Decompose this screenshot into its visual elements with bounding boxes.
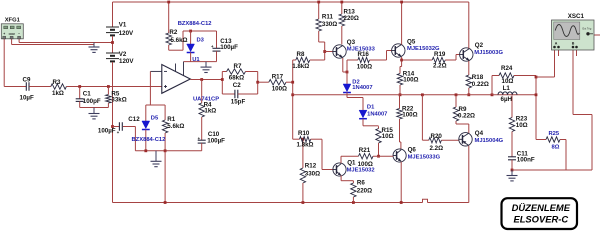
svg-text:DÜZENLEME: DÜZENLEME	[512, 202, 571, 213]
svg-text:220Ω: 220Ω	[357, 188, 372, 195]
svg-text:MJE15032: MJE15032	[347, 168, 375, 174]
svg-text:MJE15033G: MJE15033G	[408, 155, 441, 161]
svg-text:R16: R16	[358, 51, 370, 58]
svg-text:5.6kΩ: 5.6kΩ	[167, 123, 184, 130]
svg-text:BZX884-C12: BZX884-C12	[132, 137, 166, 143]
svg-text:V1: V1	[119, 22, 127, 29]
svg-text:R8: R8	[297, 51, 305, 58]
svg-text:R3: R3	[53, 79, 61, 86]
svg-text:+: +	[3, 32, 5, 36]
svg-text:5.6kΩ: 5.6kΩ	[171, 37, 188, 44]
svg-text:D1: D1	[367, 104, 375, 110]
svg-text:Q3: Q3	[347, 39, 356, 46]
svg-text:R24: R24	[501, 65, 513, 72]
svg-text:2.2Ω: 2.2Ω	[433, 63, 447, 70]
svg-text:BZX884-C12: BZX884-C12	[178, 21, 212, 27]
svg-text:1N4007: 1N4007	[367, 111, 387, 117]
svg-text:A: A	[555, 42, 558, 46]
svg-text:100µF: 100µF	[207, 138, 225, 145]
svg-text:120V: 120V	[119, 58, 134, 65]
svg-text:D3: D3	[197, 38, 205, 44]
svg-text:10Ω: 10Ω	[516, 122, 528, 129]
svg-text:U1: U1	[192, 57, 200, 63]
svg-text:R19: R19	[434, 51, 446, 58]
svg-text:1N4007: 1N4007	[352, 85, 372, 91]
svg-text:1.8kΩ: 1.8kΩ	[297, 141, 314, 148]
svg-text:C1: C1	[83, 90, 91, 97]
svg-text:R21: R21	[359, 147, 371, 154]
svg-text:330Ω: 330Ω	[305, 170, 320, 177]
svg-text:ELSOVER-C: ELSOVER-C	[513, 214, 568, 225]
svg-text:C9: C9	[23, 76, 31, 83]
svg-text:100Ω: 100Ω	[272, 85, 287, 92]
svg-text:R18: R18	[472, 74, 484, 81]
svg-text:100Ω: 100Ω	[403, 77, 418, 84]
svg-text:Q4: Q4	[475, 130, 484, 137]
svg-text:V2: V2	[119, 51, 127, 58]
svg-text:XSC1: XSC1	[568, 13, 585, 20]
svg-text:Q5: Q5	[407, 38, 416, 45]
svg-text:1kΩ: 1kΩ	[204, 108, 216, 115]
svg-text:C12: C12	[128, 116, 140, 123]
svg-text:L1: L1	[503, 85, 511, 92]
svg-text:Q6: Q6	[408, 147, 417, 154]
svg-text:1.8kΩ: 1.8kΩ	[292, 63, 309, 70]
svg-text:R11: R11	[322, 14, 334, 21]
svg-text:MJ15003G: MJ15003G	[474, 50, 503, 56]
svg-text:R12: R12	[305, 163, 317, 170]
svg-text:Q2: Q2	[475, 42, 484, 49]
svg-text:R7: R7	[234, 63, 242, 70]
svg-text:−: −	[18, 32, 20, 36]
svg-text:220Ω: 220Ω	[344, 15, 359, 22]
svg-text:R10: R10	[298, 130, 310, 137]
svg-text:Ext Trig: Ext Trig	[583, 27, 592, 31]
svg-text:8Ω: 8Ω	[552, 145, 560, 151]
svg-text:R20: R20	[431, 133, 443, 140]
svg-text:Q1: Q1	[347, 160, 356, 167]
svg-text:100µF: 100µF	[98, 127, 116, 134]
svg-text:D5: D5	[151, 116, 159, 122]
svg-text:33kΩ: 33kΩ	[111, 96, 126, 103]
svg-text:330Ω: 330Ω	[322, 21, 337, 28]
svg-text:XFG1: XFG1	[5, 17, 21, 23]
svg-text:1kΩ: 1kΩ	[52, 90, 64, 97]
svg-text:R17: R17	[272, 73, 284, 80]
svg-text:B: B	[572, 42, 575, 46]
svg-text:R6: R6	[357, 180, 365, 187]
svg-text:100pF: 100pF	[83, 98, 101, 105]
svg-text:C2: C2	[233, 82, 241, 89]
svg-text:COM: COM	[9, 32, 15, 36]
svg-text:10µF: 10µF	[20, 95, 34, 102]
svg-text:MJ15004G: MJ15004G	[475, 138, 504, 144]
svg-text:68kΩ: 68kΩ	[229, 74, 244, 81]
svg-text:10Ω: 10Ω	[382, 133, 394, 140]
svg-text:R2: R2	[169, 29, 177, 36]
svg-text:2.2Ω: 2.2Ω	[430, 145, 444, 152]
svg-text:0.22Ω: 0.22Ω	[458, 112, 475, 119]
svg-text:6µH: 6µH	[501, 96, 513, 103]
svg-text:100nF: 100nF	[517, 157, 535, 164]
svg-text:100µF: 100µF	[220, 44, 238, 51]
svg-text:0.22Ω: 0.22Ω	[472, 81, 489, 88]
svg-text:R25: R25	[549, 131, 560, 137]
svg-text:15pF: 15pF	[231, 99, 246, 106]
svg-text:100Ω: 100Ω	[357, 63, 372, 70]
svg-text:120V: 120V	[119, 30, 134, 37]
svg-text:100Ω: 100Ω	[402, 111, 417, 118]
